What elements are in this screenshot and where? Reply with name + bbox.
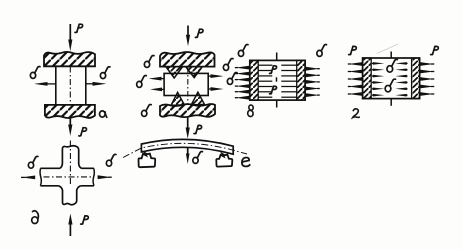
tension arrows right (fig v) <box>317 68 320 70</box>
specimen box (fig g) <box>363 58 420 99</box>
label P top (fig b) <box>195 29 203 37</box>
label P upper inside (fig v) <box>270 66 277 74</box>
left hatched grip (fig g) <box>363 58 372 99</box>
sigma label left (fig d) <box>28 156 38 168</box>
sigma label (fig e) <box>193 152 203 164</box>
label e (fig e) <box>242 158 250 167</box>
sigma arrow right 1 (fig b) <box>208 75 212 77</box>
bent specimen beam (fig e) <box>141 139 233 154</box>
label P left (fig g) <box>349 46 357 54</box>
vertical centerline (fig d) <box>69 141 71 204</box>
sigma arrow right (fig a) <box>86 83 93 85</box>
specimen centerline (fig a) <box>69 67 71 106</box>
sigma arrow left (fig a) <box>47 83 56 85</box>
neutral axis line (fig e) <box>123 143 247 157</box>
sigma label upper inside (fig g) <box>387 59 397 72</box>
force arrow P bottom (fig a / fig d top) <box>69 118 71 126</box>
sigma arrow left 2 (fig b) <box>159 88 164 90</box>
center axis tick top (fig v) <box>276 53 278 61</box>
right hatched wall (fig v) <box>297 60 305 100</box>
force arrow P bottom (fig b / load on fig e) <box>187 118 189 130</box>
sigma label upper-left (fig b) <box>144 56 154 68</box>
sigma label upper-right (fig b) <box>223 59 233 71</box>
lower toothed die (fig b) <box>160 104 215 117</box>
lower die right tooth (fig b) <box>191 92 204 105</box>
label a (fig a) <box>100 111 107 117</box>
upper die right tooth (fig b) <box>186 67 203 78</box>
horizontal centerline (fig d) <box>44 176 92 178</box>
upper punch (fig d) <box>60 146 82 169</box>
right hatched grip (fig g) <box>412 58 420 99</box>
force arrow P top (fig a) <box>69 24 71 41</box>
label P bottom (fig a) <box>79 128 87 136</box>
tension arrows right (fig g) <box>431 63 434 65</box>
strip bottom edge (fig d) <box>40 185 94 187</box>
strip right end (fig d) <box>93 168 94 186</box>
lower punch (fig d) <box>59 186 81 205</box>
label P right (fig g) <box>431 46 439 54</box>
sigma label lower inside (fig g) <box>385 79 395 92</box>
pressure tick (fig v) <box>276 77 278 81</box>
specimen (fig b) <box>164 73 208 95</box>
left hatched wall (fig v) <box>250 60 258 100</box>
stray scan mark above fig g <box>377 44 398 54</box>
tension arrows left (fig g) <box>348 63 351 65</box>
label g (fig g) <box>353 109 360 118</box>
sigma arrow below beam (fig e) <box>187 148 189 155</box>
sigma label left (fig a) <box>30 67 40 79</box>
sigma label mid-right (fig b) <box>227 73 237 85</box>
center axis tick bottom (fig g) <box>390 99 392 106</box>
upper toothed die (fig b) <box>160 52 215 67</box>
label P bottom (fig d) <box>81 216 89 224</box>
sigma label upper-right (fig v) <box>317 45 327 57</box>
strip top edge (fig d) <box>40 167 94 169</box>
tension arrows left (fig v) <box>235 67 238 69</box>
label d (fig d) <box>32 211 39 224</box>
internal stress arrows right column (fig g) <box>405 62 408 64</box>
internal stress arrows left column (fig g) <box>372 62 375 64</box>
container box (fig v) <box>250 60 305 100</box>
right support (fig e) <box>216 154 232 167</box>
sigma label right (fig d) <box>106 154 116 166</box>
force arrow P bottom (fig d) <box>69 224 71 236</box>
center axis tick bottom (fig v) <box>276 100 278 107</box>
sigma label mid-left (fig b) <box>137 76 147 88</box>
lower die (fig a) <box>45 105 95 118</box>
sigma arrow left (fig d) <box>21 176 25 178</box>
center axis tick top (fig g) <box>390 52 392 59</box>
upper die left tooth (fig b) <box>166 67 183 78</box>
label v (fig v) <box>247 105 254 117</box>
sigma label right (fig a) <box>100 67 110 79</box>
force arrow P top (fig b) <box>187 26 189 37</box>
sigma label upper-left (fig v) <box>238 45 248 57</box>
upper die (fig a) <box>44 52 95 66</box>
label P top (fig a) <box>75 24 83 32</box>
left support (fig e) <box>138 153 155 167</box>
sigma arrow right 2 (fig b) <box>208 88 212 90</box>
label P bottom (fig b) <box>194 125 202 133</box>
internal pressure medium lines (fig v) <box>258 64 272 66</box>
label P lower inside (fig v) <box>270 86 277 94</box>
lower die left tooth (fig b) <box>171 92 184 105</box>
specimen centerline (fig b) <box>187 67 189 104</box>
sigma arrow right (fig d) <box>108 176 112 178</box>
strip left end (fig d) <box>40 168 41 186</box>
specimen side walls (fig a) <box>55 66 57 105</box>
sigma arrow left 1 (fig b) <box>158 78 164 80</box>
sigma label lower-left (fig b) <box>142 105 152 117</box>
